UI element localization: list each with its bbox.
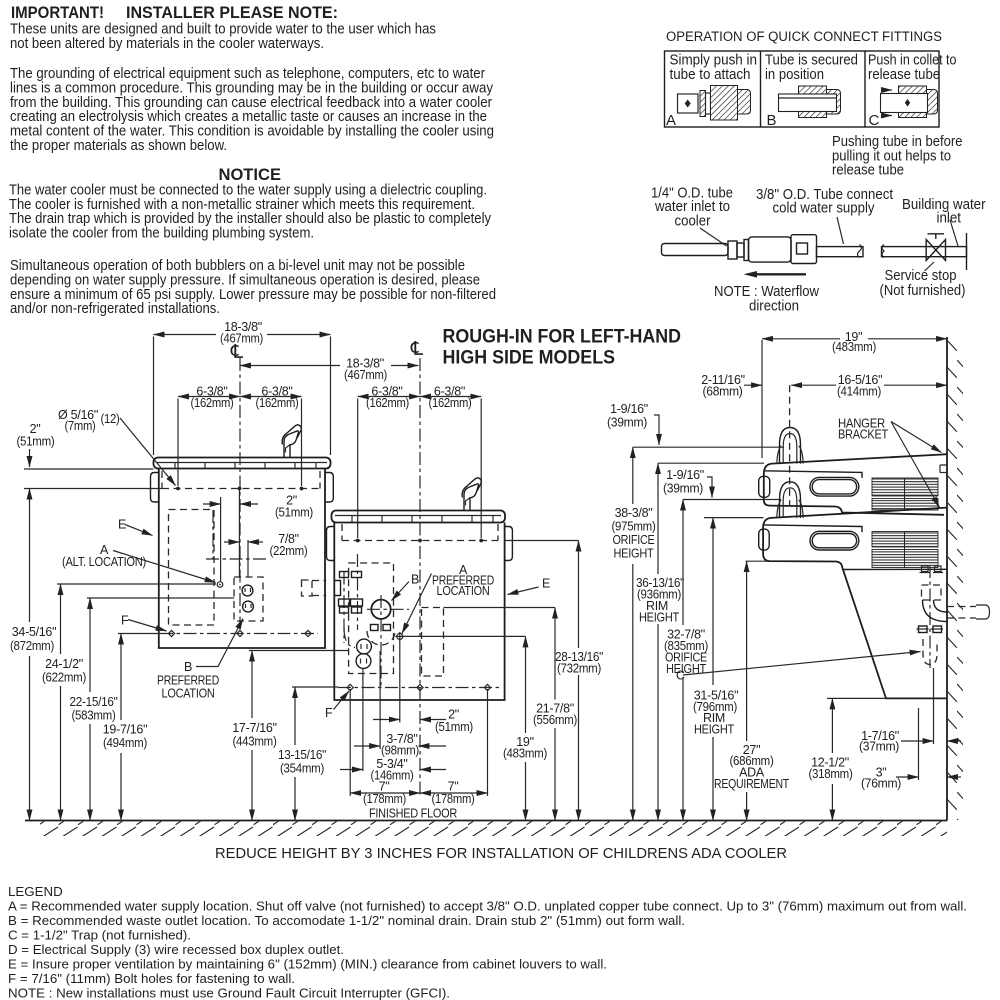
svg-text:A = Recommended water supply l: A = Recommended water supply location. S… <box>8 899 967 914</box>
svg-text:F: F <box>121 614 129 628</box>
svg-text:(162mm): (162mm) <box>429 396 472 410</box>
svg-text:LEGEND: LEGEND <box>8 884 63 899</box>
svg-text:(39mm): (39mm) <box>663 482 703 496</box>
svg-text:1-9/16": 1-9/16" <box>610 402 648 416</box>
svg-text:cooler: cooler <box>675 213 711 230</box>
svg-text:(556mm): (556mm) <box>533 713 577 727</box>
svg-text:HEIGHT: HEIGHT <box>666 662 707 676</box>
svg-text:(12): (12) <box>101 412 120 426</box>
svg-text:B: B <box>767 112 777 129</box>
svg-text:(76mm): (76mm) <box>861 777 901 791</box>
svg-text:13-15/16": 13-15/16" <box>278 748 326 762</box>
svg-text:(483mm): (483mm) <box>832 340 876 354</box>
svg-text:(467mm): (467mm) <box>344 368 387 382</box>
svg-text:E = Insure proper ventilation: E = Insure proper ventilation by maintai… <box>8 957 607 972</box>
svg-text:the proper materials as shown: the proper materials as shown below. <box>10 137 227 154</box>
svg-text:in position: in position <box>765 66 824 83</box>
svg-text:isolate the cooler from the bu: isolate the cooler from the building plu… <box>9 224 314 241</box>
svg-text:F = 7/16" (11mm) Bolt holes fo: F = 7/16" (11mm) Bolt holes for fastenin… <box>8 971 295 986</box>
svg-text:BRACKET: BRACKET <box>838 428 889 442</box>
svg-text:(494mm): (494mm) <box>103 736 147 750</box>
svg-text:℄: ℄ <box>230 342 244 363</box>
svg-text:(22mm): (22mm) <box>270 544 308 558</box>
svg-text:LOCATION: LOCATION <box>437 584 490 598</box>
svg-text:(98mm): (98mm) <box>381 744 419 758</box>
svg-text:B = Recommended waste outlet l: B = Recommended waste outlet location. T… <box>8 913 685 928</box>
svg-text:(872mm): (872mm) <box>10 639 54 653</box>
svg-text:(318mm): (318mm) <box>809 767 853 781</box>
svg-text:inlet: inlet <box>937 210 962 227</box>
svg-text:(39mm): (39mm) <box>607 416 647 430</box>
svg-text:(583mm): (583mm) <box>72 709 116 723</box>
svg-text:ORIFICE: ORIFICE <box>613 533 655 547</box>
svg-text:D = Electrical Supply (3) wire: D = Electrical Supply (3) wire recessed … <box>8 942 344 957</box>
svg-text:34-5/16": 34-5/16" <box>12 625 56 639</box>
svg-text:HEIGHT: HEIGHT <box>614 547 655 561</box>
svg-text:(162mm): (162mm) <box>366 396 409 410</box>
svg-text:24-1/2": 24-1/2" <box>45 657 83 671</box>
svg-text:HEIGHT: HEIGHT <box>639 611 680 625</box>
svg-text:℄: ℄ <box>410 339 424 360</box>
svg-text:HIGH SIDE MODELS: HIGH SIDE MODELS <box>443 348 616 369</box>
svg-text:(162mm): (162mm) <box>256 396 299 410</box>
svg-text:(146mm): (146mm) <box>371 769 414 783</box>
svg-text:tube to attach: tube to attach <box>670 66 751 83</box>
svg-text:E: E <box>118 518 126 532</box>
svg-text:(68mm): (68mm) <box>703 385 743 399</box>
svg-text:C = 1-1/2" Trap (not furnished: C = 1-1/2" Trap (not furnished). <box>8 928 191 943</box>
svg-text:NOTE : New installations must: NOTE : New installations must use Ground… <box>8 986 450 1000</box>
svg-text:(37mm): (37mm) <box>859 740 899 754</box>
svg-text:C: C <box>869 112 880 129</box>
svg-text:A: A <box>666 112 676 129</box>
svg-text:IMPORTANT!: IMPORTANT! <box>11 3 104 22</box>
svg-text:ROUGH-IN FOR LEFT-HAND: ROUGH-IN FOR LEFT-HAND <box>443 327 682 348</box>
svg-text:(178mm): (178mm) <box>363 792 406 806</box>
svg-text:OPERATION OF QUICK CONNECT FIT: OPERATION OF QUICK CONNECT FITTINGS <box>666 29 942 44</box>
svg-text:(354mm): (354mm) <box>280 762 324 776</box>
svg-text:19-7/16": 19-7/16" <box>103 723 147 737</box>
svg-text:release tube: release tube <box>868 66 940 83</box>
svg-text:38-3/8": 38-3/8" <box>615 506 653 520</box>
svg-text:HEIGHT: HEIGHT <box>694 723 735 737</box>
svg-text:cold water supply: cold water supply <box>773 200 875 217</box>
svg-text:F: F <box>325 706 333 720</box>
svg-text:LOCATION: LOCATION <box>162 687 215 701</box>
svg-text:REQUIREMENT: REQUIREMENT <box>714 777 790 791</box>
svg-text:PREFERRED: PREFERRED <box>157 674 219 688</box>
svg-text:direction: direction <box>749 298 799 315</box>
svg-text:(414mm): (414mm) <box>837 385 881 399</box>
svg-text:B: B <box>184 660 192 674</box>
svg-text:(178mm): (178mm) <box>432 792 475 806</box>
svg-text:22-15/16": 22-15/16" <box>70 695 118 709</box>
svg-text:INSTALLER PLEASE NOTE:: INSTALLER PLEASE NOTE: <box>126 3 338 22</box>
svg-text:(Not furnished): (Not furnished) <box>880 282 966 299</box>
svg-text:(732mm): (732mm) <box>557 662 601 676</box>
svg-text:(162mm): (162mm) <box>191 396 234 410</box>
svg-text:REDUCE HEIGHT BY 3 INCHES FOR: REDUCE HEIGHT BY 3 INCHES FOR INSTALLATI… <box>215 845 787 862</box>
svg-text:(51mm): (51mm) <box>275 506 313 520</box>
svg-text:FINISHED FLOOR: FINISHED FLOOR <box>369 807 457 821</box>
svg-text:(7mm): (7mm) <box>65 419 96 433</box>
svg-text:E: E <box>542 577 550 591</box>
svg-text:(51mm): (51mm) <box>435 720 473 734</box>
svg-text:(443mm): (443mm) <box>233 735 277 749</box>
svg-text:and/or non-refrigerated instal: and/or non-refrigerated installations. <box>10 300 220 317</box>
svg-text:1-9/16": 1-9/16" <box>666 468 704 482</box>
svg-text:(975mm): (975mm) <box>612 520 656 534</box>
svg-text:not been altered by materials: not been altered by materials in the coo… <box>10 35 324 52</box>
svg-text:17-7/16": 17-7/16" <box>232 721 276 735</box>
svg-text:release tube: release tube <box>832 162 904 179</box>
svg-text:(483mm): (483mm) <box>503 747 547 761</box>
svg-text:B: B <box>411 573 419 587</box>
svg-text:(622mm): (622mm) <box>42 671 86 685</box>
svg-text:(51mm): (51mm) <box>17 435 55 449</box>
